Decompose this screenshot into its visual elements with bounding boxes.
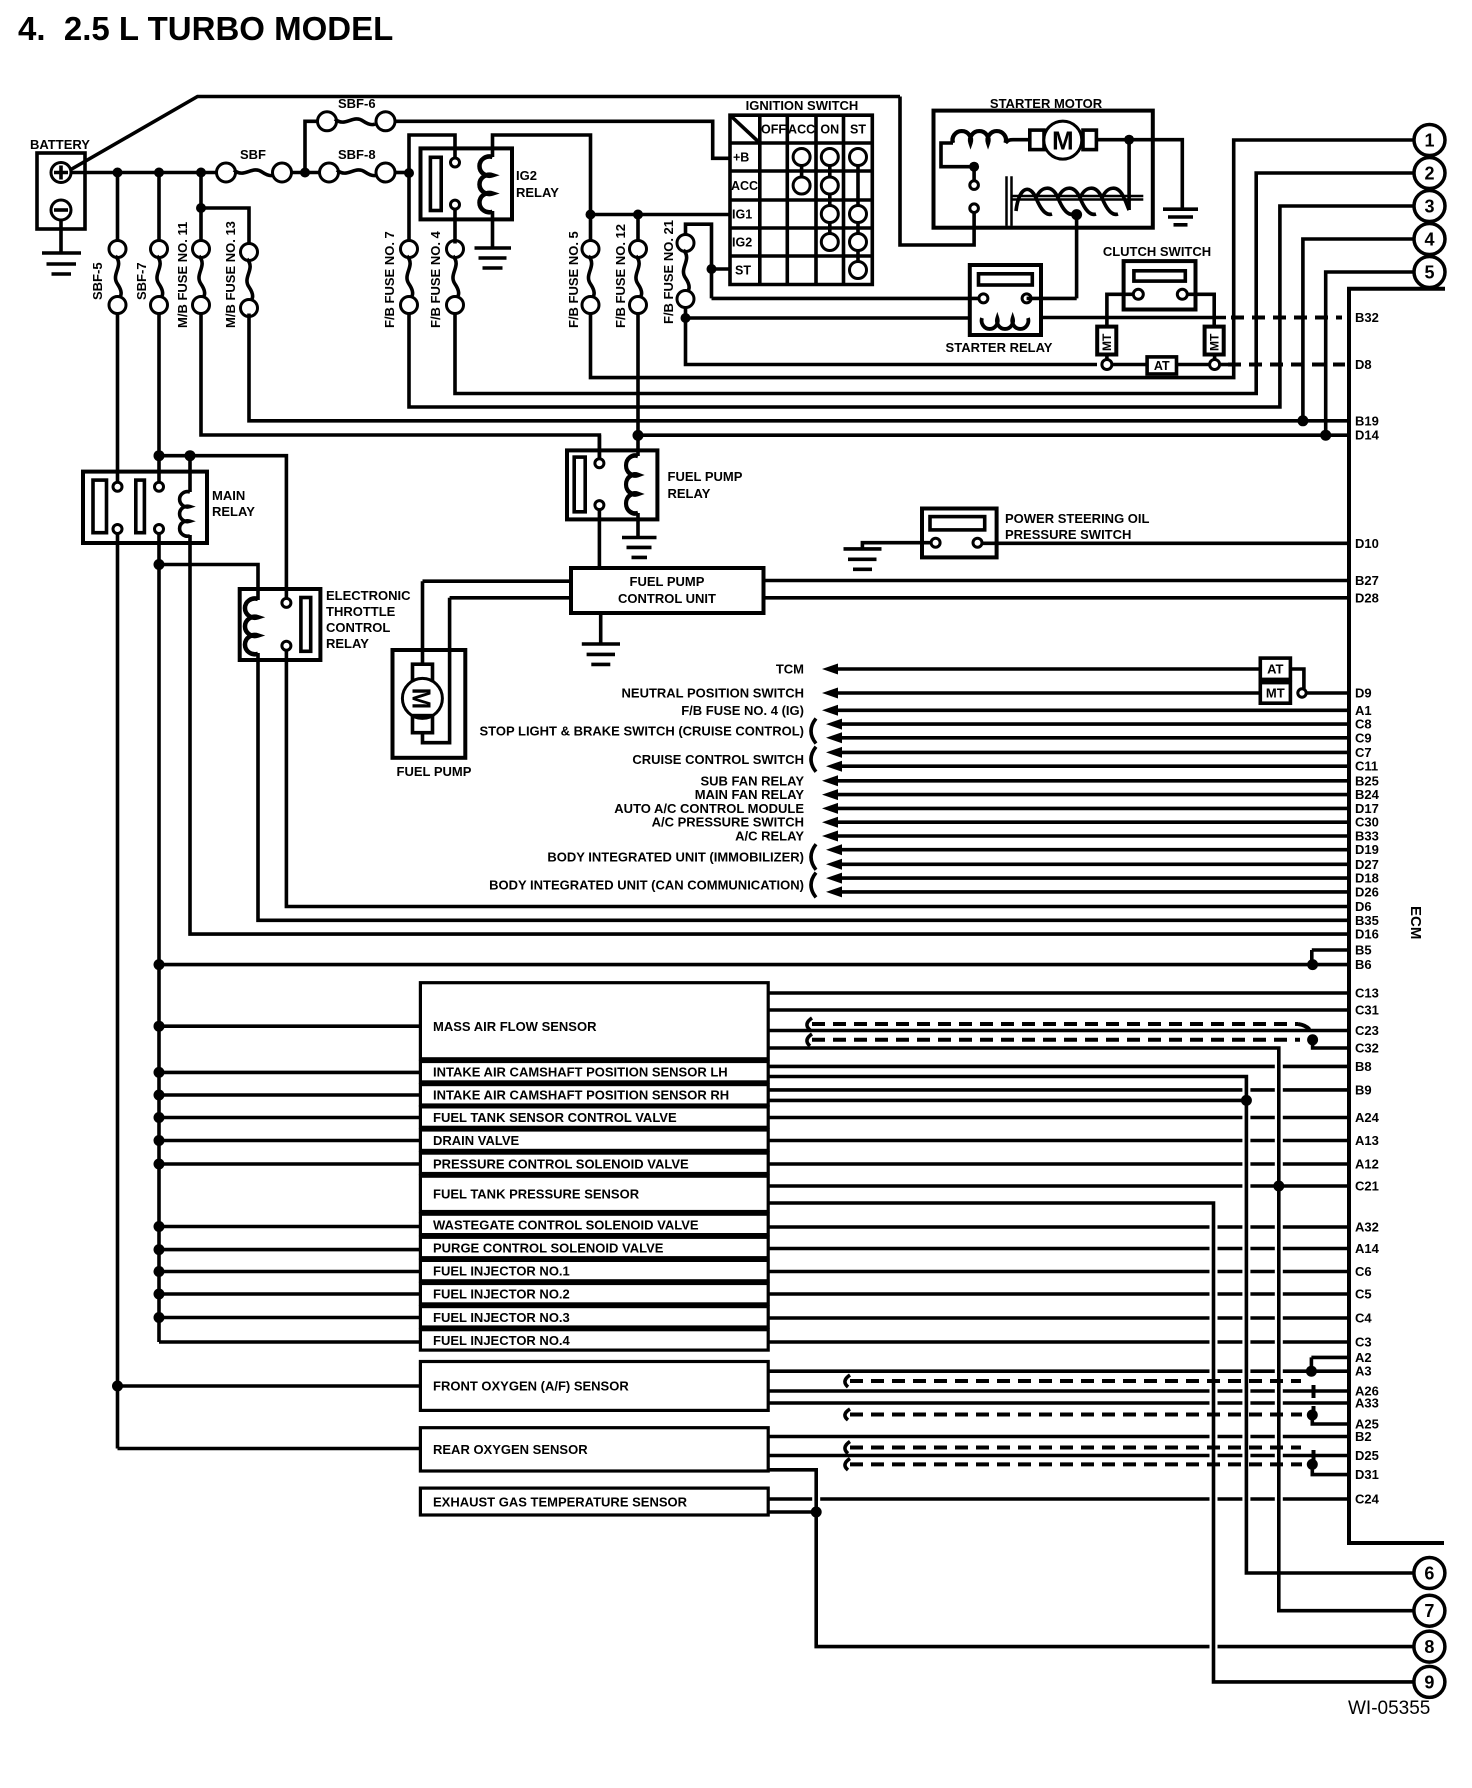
svg-text:D28: D28 [1355,590,1379,605]
svg-text:SBF-6: SBF-6 [338,96,376,111]
svg-text:AT: AT [1154,359,1170,373]
svg-text:M: M [407,688,437,710]
svg-text:B2: B2 [1355,1429,1372,1444]
svg-text:C11: C11 [1355,759,1378,774]
svg-text:SBF-5: SBF-5 [90,262,105,300]
svg-text:D17: D17 [1355,801,1379,816]
svg-text:CONTROL: CONTROL [326,620,390,635]
svg-text:DRAIN VALVE: DRAIN VALVE [433,1133,520,1148]
svg-text:C6: C6 [1355,1264,1372,1279]
svg-text:M/B FUSE NO. 11: M/B FUSE NO. 11 [175,222,190,328]
svg-text:SBF-7: SBF-7 [134,262,149,300]
svg-text:IGNITION SWITCH: IGNITION SWITCH [746,98,859,113]
svg-text:A/C PRESSURE SWITCH: A/C PRESSURE SWITCH [652,815,804,830]
svg-text:C23: C23 [1355,1023,1379,1038]
svg-text:C21: C21 [1355,1179,1379,1194]
svg-text:B9: B9 [1355,1082,1372,1097]
svg-text:FRONT OXYGEN (A/F) SENSOR: FRONT OXYGEN (A/F) SENSOR [433,1379,629,1394]
svg-text:B32: B32 [1355,310,1379,325]
svg-text:ST: ST [735,264,751,278]
svg-text:A3: A3 [1355,1364,1372,1379]
svg-text:AUTO A/C CONTROL MODULE: AUTO A/C CONTROL MODULE [614,801,804,816]
svg-text:PRESSURE SWITCH: PRESSURE SWITCH [1005,527,1131,542]
svg-text:A1: A1 [1355,703,1372,718]
svg-text:PURGE CONTROL SOLENOID VALVE: PURGE CONTROL SOLENOID VALVE [433,1241,664,1256]
svg-text:F/B FUSE NO. 21: F/B FUSE NO. 21 [661,220,676,324]
svg-text:A2: A2 [1355,1350,1372,1365]
svg-text:BATTERY: BATTERY [30,137,90,152]
svg-text:D8: D8 [1355,357,1372,372]
svg-text:SUB FAN RELAY: SUB FAN RELAY [700,773,804,788]
svg-text:SBF: SBF [240,147,266,162]
svg-text:F/B FUSE NO. 7: F/B FUSE NO. 7 [382,231,397,328]
svg-text:FUEL INJECTOR NO.2: FUEL INJECTOR NO.2 [433,1287,570,1302]
svg-text:4. 2.5 L TURBO MODEL: 4. 2.5 L TURBO MODEL [18,10,393,47]
svg-text:BODY INTEGRATED UNIT (CAN COMM: BODY INTEGRATED UNIT (CAN COMMUNICATION) [489,878,804,893]
svg-text:C9: C9 [1355,730,1372,745]
svg-text:TCM: TCM [776,662,804,677]
svg-text:CRUISE CONTROL SWITCH: CRUISE CONTROL SWITCH [632,752,804,767]
svg-text:D26: D26 [1355,884,1379,899]
svg-text:RELAY: RELAY [668,486,711,501]
svg-text:C5: C5 [1355,1287,1372,1302]
svg-text:D27: D27 [1355,857,1379,872]
svg-text:2: 2 [1424,164,1434,184]
svg-text:FUEL INJECTOR NO.1: FUEL INJECTOR NO.1 [433,1264,570,1279]
svg-text:POWER STEERING OIL: POWER STEERING OIL [1005,511,1150,526]
svg-text:WI-05355: WI-05355 [1348,1698,1430,1719]
svg-text:REAR OXYGEN SENSOR: REAR OXYGEN SENSOR [433,1442,588,1457]
svg-text:B27: B27 [1355,573,1379,588]
svg-text:STARTER RELAY: STARTER RELAY [946,340,1053,355]
svg-text:D10: D10 [1355,536,1379,551]
svg-text:FUEL TANK PRESSURE SENSOR: FUEL TANK PRESSURE SENSOR [433,1186,640,1201]
svg-text:C24: C24 [1355,1492,1380,1507]
svg-text:C7: C7 [1355,745,1372,760]
svg-text:B5: B5 [1355,943,1372,958]
svg-text:6: 6 [1424,1564,1434,1584]
svg-text:F/B FUSE NO. 5: F/B FUSE NO. 5 [566,231,581,328]
svg-text:FUEL PUMP: FUEL PUMP [668,469,743,484]
svg-text:8: 8 [1424,1637,1434,1657]
svg-text:IG2: IG2 [516,168,537,183]
svg-text:D31: D31 [1355,1467,1379,1482]
svg-text:FUEL PUMP: FUEL PUMP [397,764,472,779]
svg-text:PRESSURE CONTROL SOLENOID VALV: PRESSURE CONTROL SOLENOID VALVE [433,1156,689,1171]
svg-text:NEUTRAL POSITION SWITCH: NEUTRAL POSITION SWITCH [622,686,804,701]
svg-text:ACC: ACC [788,123,815,137]
svg-text:A13: A13 [1355,1133,1379,1148]
svg-text:M: M [1052,126,1074,156]
svg-text:B8: B8 [1355,1059,1372,1074]
svg-text:MT: MT [1266,686,1285,701]
svg-text:INTAKE AIR CAMSHAFT POSITION S: INTAKE AIR CAMSHAFT POSITION SENSOR LH [433,1065,728,1080]
svg-text:CLUTCH SWITCH: CLUTCH SWITCH [1103,244,1211,259]
svg-text:D6: D6 [1355,899,1372,914]
svg-text:B24: B24 [1355,787,1380,802]
svg-text:D25: D25 [1355,1448,1379,1463]
svg-text:F/B FUSE NO. 4 (IG): F/B FUSE NO. 4 (IG) [681,703,804,718]
svg-text:IG2: IG2 [732,236,752,250]
svg-text:M/B FUSE NO. 13: M/B FUSE NO. 13 [223,221,238,328]
svg-text:THROTTLE: THROTTLE [326,604,396,619]
svg-text:ELECTRONIC: ELECTRONIC [326,588,411,603]
svg-text:CONTROL UNIT: CONTROL UNIT [618,591,716,606]
svg-text:FUEL INJECTOR NO.4: FUEL INJECTOR NO.4 [433,1333,571,1348]
svg-text:B6: B6 [1355,957,1372,972]
svg-text:WASTEGATE CONTROL SOLENOID VAL: WASTEGATE CONTROL SOLENOID VALVE [433,1217,699,1232]
svg-text:F/B FUSE NO. 12: F/B FUSE NO. 12 [613,224,628,328]
svg-text:4: 4 [1424,230,1434,250]
svg-text:C31: C31 [1355,1003,1379,1018]
svg-text:FUEL INJECTOR NO.3: FUEL INJECTOR NO.3 [433,1310,570,1325]
svg-text:EXHAUST GAS TEMPERATURE SENSOR: EXHAUST GAS TEMPERATURE SENSOR [433,1495,688,1510]
svg-text:MT: MT [1208,333,1222,351]
svg-text:FUEL TANK SENSOR CONTROL VALVE: FUEL TANK SENSOR CONTROL VALVE [433,1110,677,1125]
svg-text:BODY INTEGRATED UNIT (IMMOBILI: BODY INTEGRATED UNIT (IMMOBILIZER) [547,850,804,865]
svg-text:7: 7 [1424,1601,1434,1621]
svg-text:IG1: IG1 [732,208,752,222]
svg-text:AT: AT [1267,662,1283,677]
svg-text:FUEL PUMP: FUEL PUMP [630,574,705,589]
svg-text:RELAY: RELAY [326,636,369,651]
svg-text:1: 1 [1424,131,1434,151]
svg-text:D19: D19 [1355,842,1379,857]
svg-text:ST: ST [850,123,866,137]
svg-text:SBF-8: SBF-8 [338,147,376,162]
svg-text:MAIN FAN RELAY: MAIN FAN RELAY [695,787,805,802]
svg-text:C3: C3 [1355,1335,1372,1350]
svg-text:9: 9 [1424,1672,1434,1692]
svg-text:C13: C13 [1355,986,1379,1001]
svg-text:MT: MT [1100,333,1114,351]
svg-text:B35: B35 [1355,913,1379,928]
svg-text:ECM: ECM [1407,906,1424,939]
svg-text:D9: D9 [1355,686,1372,701]
svg-text:ON: ON [820,123,839,137]
svg-text:A14: A14 [1355,1241,1380,1256]
svg-text:5: 5 [1424,263,1434,283]
svg-text:RELAY: RELAY [212,504,255,519]
svg-text:D14: D14 [1355,428,1380,443]
svg-text:A33: A33 [1355,1396,1379,1411]
svg-text:A32: A32 [1355,1220,1379,1235]
svg-text:A/C RELAY: A/C RELAY [735,829,804,844]
svg-text:C4: C4 [1355,1311,1372,1326]
svg-text:D16: D16 [1355,927,1379,942]
svg-text:OFF: OFF [761,123,786,137]
svg-text:INTAKE AIR CAMSHAFT POSITION S: INTAKE AIR CAMSHAFT POSITION SENSOR RH [433,1088,729,1103]
svg-text:MASS AIR FLOW SENSOR: MASS AIR FLOW SENSOR [433,1019,597,1034]
svg-text:D18: D18 [1355,871,1379,886]
svg-text:3: 3 [1424,197,1434,217]
svg-text:A24: A24 [1355,1110,1380,1125]
svg-text:RELAY: RELAY [516,185,559,200]
svg-text:B19: B19 [1355,413,1379,428]
svg-text:F/B FUSE NO. 4: F/B FUSE NO. 4 [428,230,443,328]
svg-text:+B: +B [733,151,749,165]
svg-text:A12: A12 [1355,1157,1379,1172]
svg-text:STOP LIGHT & BRAKE SWITCH (CRU: STOP LIGHT & BRAKE SWITCH (CRUISE CONTRO… [479,724,804,739]
svg-text:C32: C32 [1355,1041,1379,1056]
svg-text:MAIN: MAIN [212,488,245,503]
svg-text:ACC: ACC [731,179,758,193]
svg-text:C30: C30 [1355,815,1379,830]
svg-text:B25: B25 [1355,773,1379,788]
